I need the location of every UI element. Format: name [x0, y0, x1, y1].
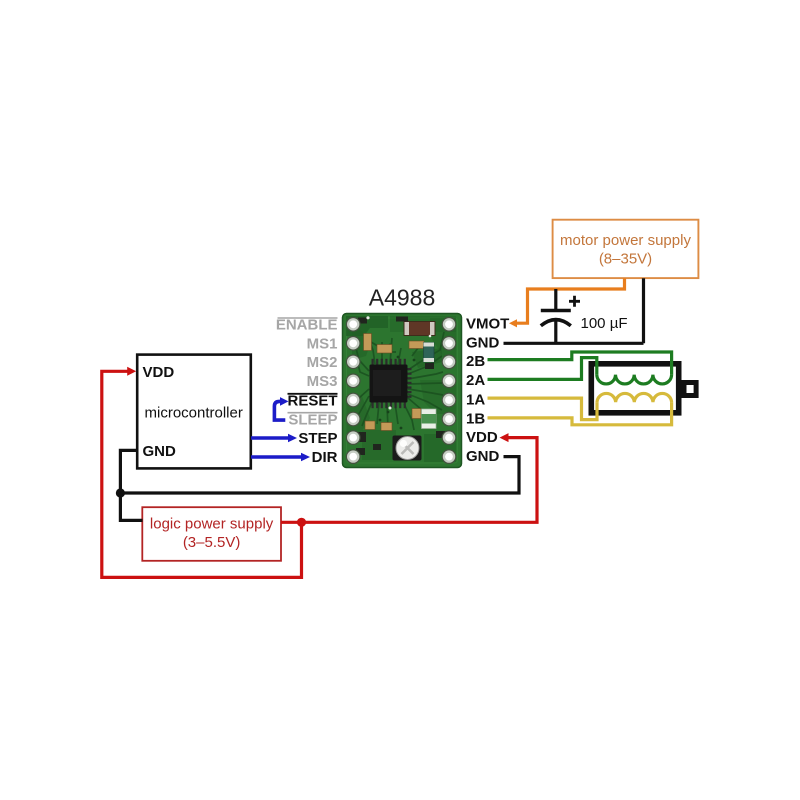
motor power supply box [553, 220, 699, 278]
wire: microcontroller to STEP (blue) [251, 436, 289, 439]
svg-text:VDD: VDD [466, 429, 498, 446]
capacitor C1 plus sign [569, 296, 580, 307]
board vias [379, 344, 416, 430]
junction dot on GND net (black) [116, 488, 125, 497]
wire: motor supply to VMOT (orange) [517, 278, 625, 323]
arrowhead into microcontroller VDD (red) [127, 367, 136, 376]
wire: microcontroller GND down to junction (black) [120, 450, 137, 493]
microcontroller box [137, 355, 251, 469]
stepper motor shaft [684, 383, 696, 396]
board dark mottling [346, 316, 456, 462]
SMD component (teal) on board [424, 343, 435, 363]
svg-text:MS2: MS2 [307, 354, 338, 371]
wire: red branch to microcontroller VDD [102, 371, 302, 577]
svg-text:logic power supply: logic power supply [150, 515, 274, 532]
capacitor C1 bottom plate (curved) [541, 320, 571, 326]
SMD component (green/white) on board [422, 409, 437, 429]
pin label RESET overline [288, 393, 338, 395]
stepper motor body [591, 364, 678, 413]
blue bracket to RESET and SLEEP [274, 401, 285, 420]
svg-text:microcontroller: microcontroller [145, 405, 243, 422]
pin label ENABLE overline [278, 317, 338, 319]
capacitor C1 100uF top lead [554, 289, 557, 310]
svg-text:VMOT: VMOT [466, 316, 509, 333]
IC U1 (A4988 chip) [370, 359, 412, 408]
svg-text:SLEEP: SLEEP [288, 411, 337, 428]
svg-text:100 µF: 100 µF [581, 315, 628, 332]
wire: 2B to motor coil (green) [488, 352, 672, 375]
arrowhead into STEP (blue) [288, 434, 297, 443]
wire: microcontroller to DIR (blue) [251, 455, 302, 458]
junction dot on red VDD net [297, 518, 306, 527]
pin label SLEEP overline [288, 412, 338, 414]
silkscreen dots on board [366, 316, 431, 409]
svg-text:A4988: A4988 [369, 285, 436, 311]
trimmer potentiometer on board [393, 436, 422, 461]
svg-text:GND: GND [466, 448, 500, 465]
svg-text:motor power supply: motor power supply [560, 232, 691, 249]
capacitor C1 bottom lead [554, 322, 557, 344]
arrowhead into DIR (blue) [301, 453, 310, 462]
SMD resistors / capacitors on board [364, 334, 425, 431]
svg-text:GND: GND [143, 443, 177, 460]
wire: motor supply to GND (black) [504, 278, 644, 343]
svg-text:GND: GND [466, 335, 500, 352]
arrowhead into RESET (blue) [280, 397, 289, 406]
svg-text:ENABLE: ENABLE [276, 317, 338, 334]
wire: 1B to motor coil (yellow) [488, 402, 672, 425]
board copper traces [356, 332, 444, 430]
wire: GND junction to logic supply (black) [120, 493, 142, 520]
wire: 1A to motor coil (yellow) [488, 398, 598, 420]
arrowhead into VMOT (orange) [509, 319, 517, 327]
electrolytic SMD capacitor on board [404, 322, 435, 336]
arrowhead into driver VDD (red) [500, 433, 509, 442]
small dark SMD bits on board [356, 317, 446, 456]
svg-text:DIR: DIR [312, 449, 338, 466]
board header holes right column [442, 318, 456, 464]
wire: logic supply to driver VDD (red) [281, 438, 537, 523]
capacitor C1 top plate [541, 309, 571, 313]
svg-text:(8–35V): (8–35V) [599, 251, 652, 268]
svg-text:2B: 2B [466, 353, 485, 370]
motor coil winding A (yellow) [597, 393, 672, 402]
wire: 2A to motor coil (green) [488, 358, 597, 380]
svg-text:(3–5.5V): (3–5.5V) [183, 534, 241, 551]
svg-text:RESET: RESET [287, 392, 337, 409]
wire: GND bus to driver GND (black) [120, 457, 519, 493]
svg-text:1A: 1A [466, 391, 485, 408]
svg-text:MS3: MS3 [307, 373, 338, 390]
A4988 driver board PCB [343, 314, 462, 468]
svg-text:STEP: STEP [298, 430, 337, 447]
board header holes left column [346, 318, 360, 464]
svg-text:MS1: MS1 [307, 336, 338, 353]
logic power supply box [142, 507, 281, 561]
svg-text:VDD: VDD [143, 364, 175, 381]
svg-text:1B: 1B [466, 411, 485, 428]
motor coil winding B (green) [597, 375, 672, 384]
svg-text:2A: 2A [466, 372, 485, 389]
